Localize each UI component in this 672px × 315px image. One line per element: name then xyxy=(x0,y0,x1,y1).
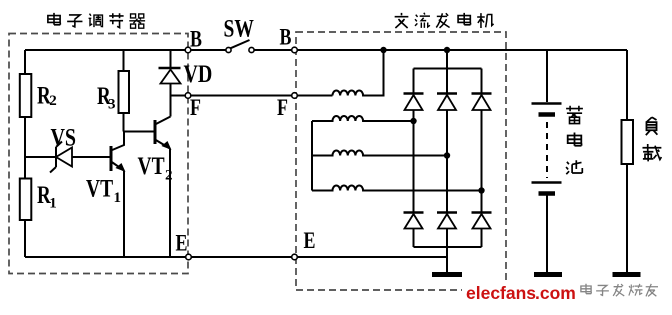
node B alternator xyxy=(292,47,298,53)
battery bottom lead xyxy=(546,196,548,273)
diode VD vertical branch xyxy=(170,50,172,67)
diode VD xyxy=(159,68,181,84)
stator phase 1 coil xyxy=(312,116,414,121)
rectifier bottom bus xyxy=(414,246,482,248)
svg-text:.com: .com xyxy=(535,283,576,303)
label: battery 蓄电池 xyxy=(566,106,583,174)
battery dashed middle xyxy=(546,122,548,178)
svg-text:2: 2 xyxy=(49,93,57,109)
diode D4 xyxy=(404,213,424,229)
svg-text:1: 1 xyxy=(114,190,122,206)
rectifier ground lead xyxy=(446,247,448,272)
stator phase 3 coil xyxy=(312,185,482,190)
diode D2 xyxy=(437,94,457,111)
svg-text:VS: VS xyxy=(51,123,77,151)
resistor load xyxy=(622,120,634,164)
rectifier columns with diodes xyxy=(414,69,482,248)
stator neutral bus xyxy=(311,121,313,191)
node F regulator xyxy=(185,93,191,99)
battery plates top xyxy=(532,102,562,104)
regulator dashed box xyxy=(9,34,188,274)
wire: F line xyxy=(171,95,333,97)
svg-text:VT: VT xyxy=(138,152,165,180)
battery plates bottom xyxy=(532,181,562,183)
svg-text:2: 2 xyxy=(165,168,173,184)
svg-text:B: B xyxy=(280,26,292,51)
resistor R2 xyxy=(20,74,32,117)
ground (load) xyxy=(613,272,641,277)
junction dot field/top rail xyxy=(380,47,386,53)
col 1 xyxy=(413,69,415,248)
diode D3 xyxy=(472,94,492,111)
col 2 xyxy=(446,69,448,248)
wire: bottom E rail xyxy=(25,256,447,258)
resistor R1 xyxy=(20,179,32,221)
node E regulator xyxy=(186,254,192,260)
resistor R3 xyxy=(123,50,125,71)
node B regulator xyxy=(185,47,191,53)
diode D5 xyxy=(437,213,457,229)
ground (rectifier) xyxy=(432,272,462,277)
transistor VT2 xyxy=(155,117,171,258)
white backing for watermark xyxy=(462,281,576,303)
wire: top rail B left segment xyxy=(25,49,229,51)
svg-text:VD: VD xyxy=(184,60,213,88)
rectifier top bus xyxy=(414,68,482,70)
transistor VT1 xyxy=(111,132,125,258)
svg-text:E: E xyxy=(176,232,188,257)
stator phase 2 coil xyxy=(312,150,447,155)
diode D6 xyxy=(472,213,492,229)
wire: VT1 collector to VT2 base xyxy=(124,131,156,133)
title: alternator 交流发电机 xyxy=(395,13,494,28)
svg-text:elecfans: elecfans xyxy=(466,283,536,303)
rectifier feed from top rail xyxy=(446,50,448,69)
ground (battery) xyxy=(534,272,562,277)
col 3 xyxy=(481,69,483,248)
label: load 负载 xyxy=(642,117,661,161)
junction dots phases xyxy=(410,118,416,124)
node E alternator xyxy=(292,254,298,260)
battery lead xyxy=(546,50,548,102)
wire: VS branch xyxy=(25,156,110,158)
svg-text:B: B xyxy=(190,27,202,52)
wire: top rail right of switch xyxy=(252,49,628,51)
switch SW xyxy=(226,40,254,53)
svg-text:1: 1 xyxy=(49,196,57,212)
zener diode VS xyxy=(50,142,72,173)
node F alternator xyxy=(292,93,298,99)
svg-text:E: E xyxy=(304,229,316,254)
wire: left vertical rail xyxy=(24,50,26,257)
watermark gray 电子发烧友 xyxy=(581,284,658,297)
svg-text:F: F xyxy=(190,96,201,121)
svg-text:SW: SW xyxy=(224,14,255,42)
svg-text:F: F xyxy=(277,96,288,121)
diode D1 xyxy=(404,94,424,111)
load branch xyxy=(626,50,628,120)
alternator dashed box xyxy=(296,32,506,290)
svg-text:3: 3 xyxy=(108,97,116,113)
field coil (rotor winding) xyxy=(333,50,384,96)
title: regulator 电子调节器 xyxy=(48,13,145,28)
svg-text:VT: VT xyxy=(86,174,113,202)
